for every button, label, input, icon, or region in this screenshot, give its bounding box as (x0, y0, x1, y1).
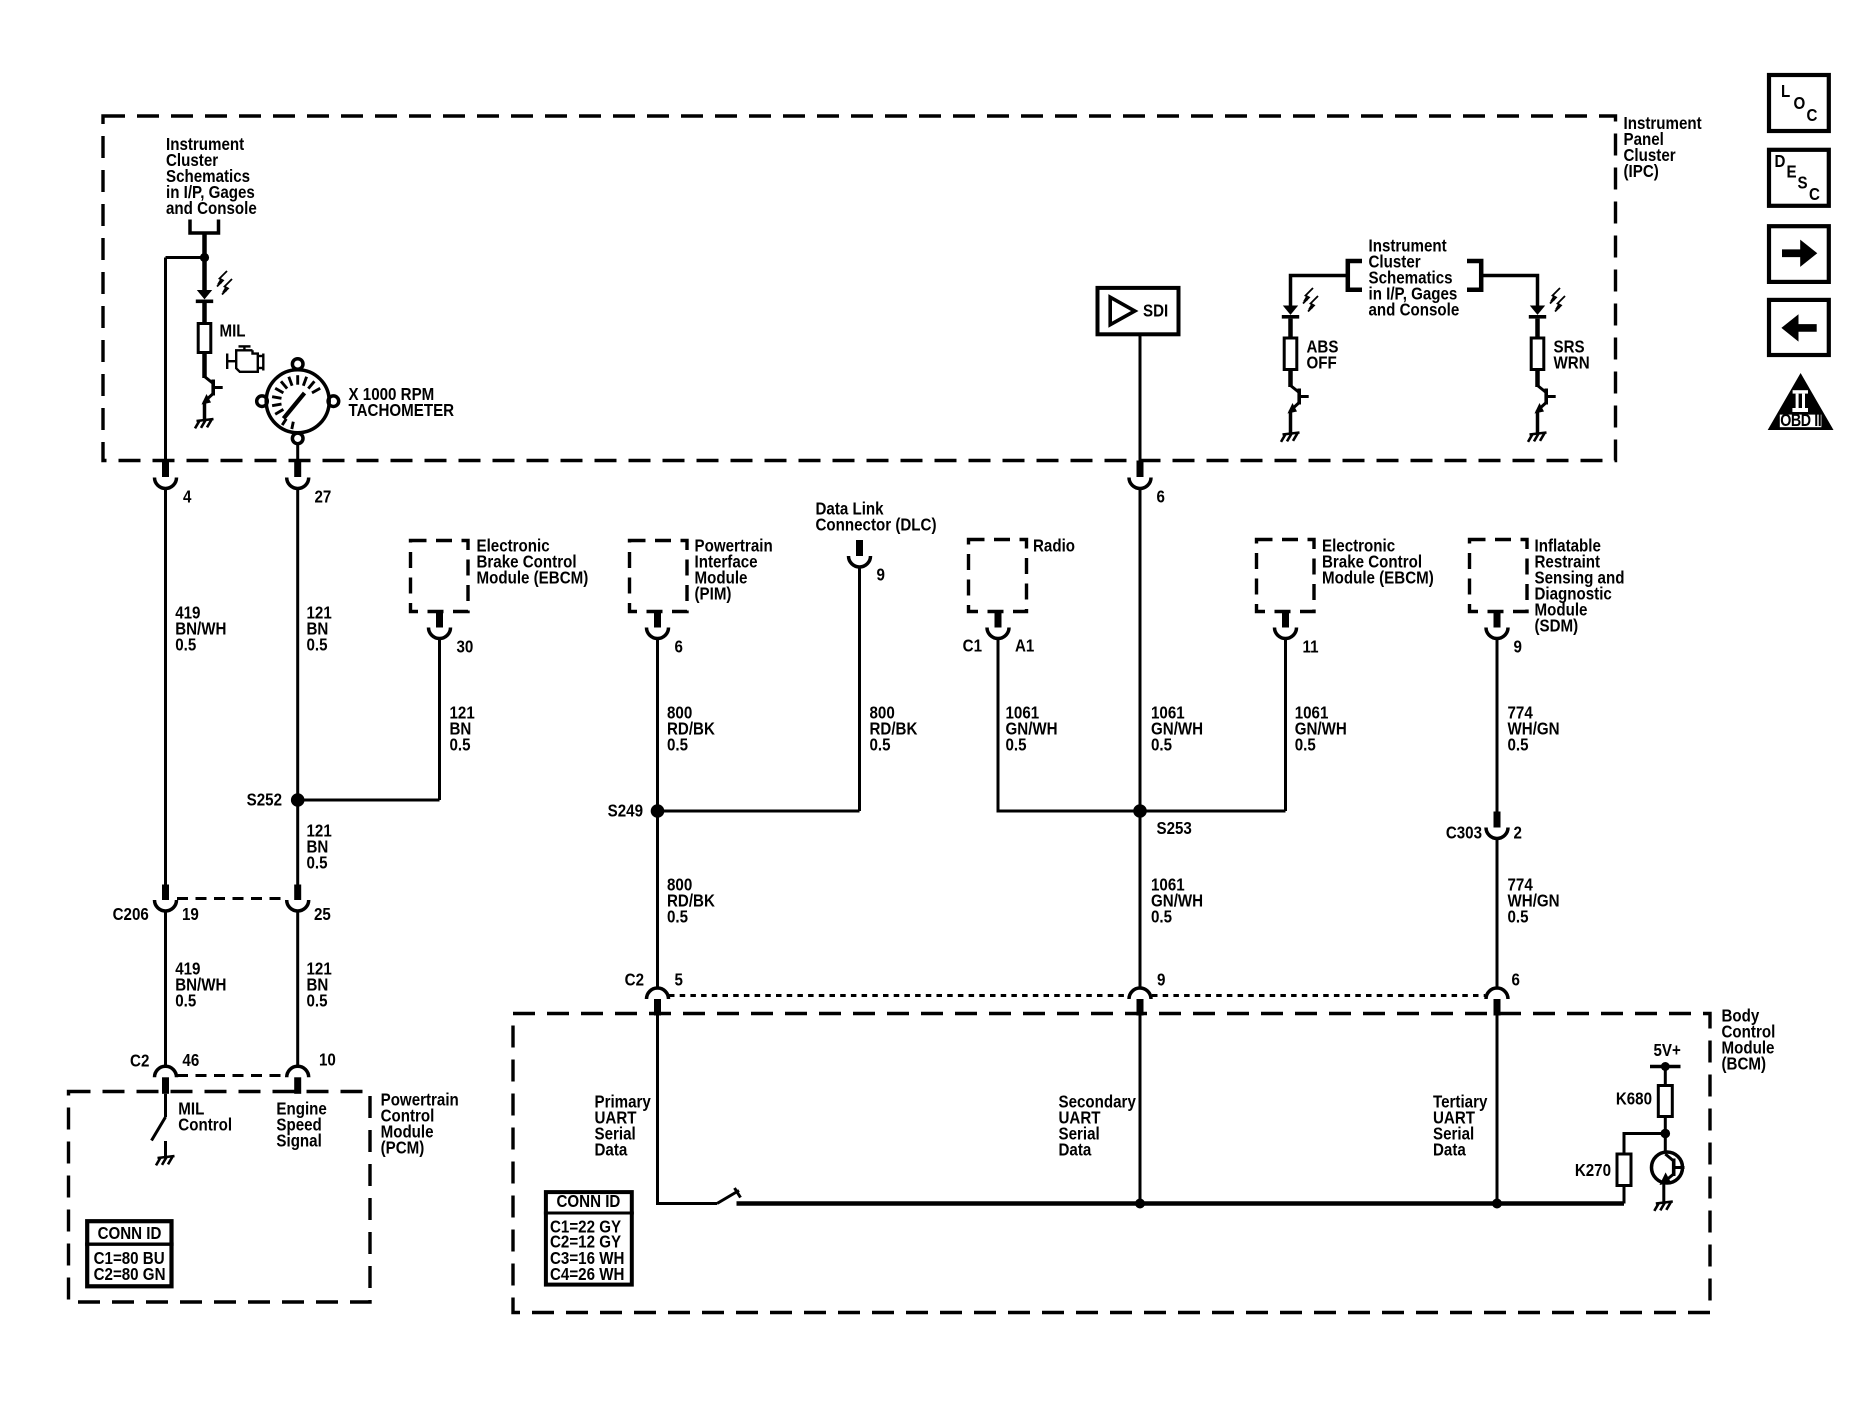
PCM name label (381, 1091, 459, 1158)
svg-text:CONN ID: CONN ID (556, 1192, 620, 1211)
wire label 774 WH/GN 0.5 (SDM drop) (1508, 704, 1560, 755)
svg-text:S: S (1798, 174, 1808, 193)
wire (202, 303, 207, 324)
svg-text:SDI: SDI (1143, 302, 1168, 321)
lamp element (resistor box) ABS (1284, 338, 1297, 370)
svg-text:Module (EBCM): Module (EBCM) (1322, 569, 1434, 588)
wire label 121 BN 0.5 (lower) (307, 960, 332, 1011)
wire label 1061 GN/WH 0.5 (Radio drop) (1006, 704, 1058, 755)
prev-arrow nav box (1769, 300, 1829, 355)
lamp element (resistor box) SRS (1531, 338, 1544, 370)
svg-text:D: D (1775, 152, 1786, 171)
svg-text:0.5: 0.5 (450, 736, 471, 755)
svg-text:6: 6 (675, 638, 683, 657)
svg-text:Data: Data (595, 1141, 629, 1160)
wire: branch left to pin 4 drop (166, 256, 207, 259)
svg-text:0.5: 0.5 (307, 636, 328, 655)
Radio box (969, 540, 1027, 612)
connector pin 9 (DLC) (849, 540, 885, 585)
C2 bridge dashed line (177, 1074, 287, 1077)
lamp element (resistor box) MIL (198, 324, 211, 353)
wire 1061 GN/WH (Radio to S253) (998, 639, 1140, 812)
svg-text:WRN: WRN (1554, 354, 1590, 373)
connector pin 4 (IPC) (155, 461, 192, 507)
svg-text:Connector (DLC): Connector (DLC) (816, 516, 937, 535)
wire 800 RD/BK (PIM to S249) (656, 639, 659, 812)
wire: drop to pin 4 (164, 258, 167, 462)
svg-text:10: 10 (319, 1051, 336, 1070)
wire 5V+ to K680 (1664, 1067, 1667, 1087)
Body Control Module (BCM) dashed box (513, 1014, 1710, 1313)
label Primary UART Serial Data (595, 1093, 651, 1160)
wire 121 BN (EBCM to S252) (438, 639, 441, 801)
splice S249 (651, 804, 665, 818)
wire label 1061 GN/WH 0.5 (center drop) (1151, 704, 1203, 755)
svg-text:OFF: OFF (1307, 354, 1337, 373)
Electronic Brake Control Module (EBCM) box 1 (411, 541, 469, 612)
svg-text:5V+: 5V+ (1654, 1041, 1681, 1060)
engine icon (check engine) (227, 346, 263, 371)
connector C1 pin A1 (Radio) (963, 612, 1035, 656)
LOC nav box (1769, 75, 1829, 131)
svg-text:5: 5 (675, 971, 683, 990)
connector pin 6 (BCM) (1486, 971, 1520, 1016)
BCM connector bridge dotted line (669, 994, 1128, 997)
wire 121 BN (pin 27 to C206) (296, 489, 299, 885)
svg-text:0.5: 0.5 (307, 992, 328, 1011)
wire: bracket to SRS lamp (1481, 276, 1537, 308)
wire 800 RD/BK (S249 to BCM C2/5) (656, 811, 659, 989)
wire 419 BN/WH (C206 to PCM C2/46) (164, 911, 167, 1067)
wire label 419 BN/WH 0.5 (lower) (175, 960, 226, 1011)
svg-text:(PIM): (PIM) (695, 585, 732, 604)
node: K680 / K270 / driver collector (1661, 1129, 1671, 1139)
svg-text:MIL: MIL (220, 322, 246, 341)
svg-text:TACHOMETER: TACHOMETER (349, 401, 455, 420)
connector pin 11 (EBCM 2) (1275, 612, 1319, 657)
wire 774 WH/GN (SDM to C303) (1496, 639, 1499, 813)
ABS OFF lamp branch (1281, 288, 1339, 442)
wire to ground (1536, 411, 1540, 434)
label Tertiary UART Serial Data (1433, 1093, 1487, 1160)
wire label 419 BN/WH 0.5 (upper) (175, 604, 226, 655)
ground (BCM driver) (1654, 1202, 1673, 1211)
svg-text:S252: S252 (247, 791, 282, 810)
svg-text:0.5: 0.5 (667, 908, 688, 927)
next-arrow nav box (1769, 226, 1829, 282)
wire: S253 to EBCM 2 riser (1140, 810, 1286, 813)
wire: tach to pin 27 (296, 444, 299, 461)
Powertrain Control Module (PCM) dashed box (69, 1092, 371, 1303)
ground (ABS) (1281, 433, 1300, 442)
svg-text:S249: S249 (608, 802, 643, 821)
wire label 121 BN 0.5 (EBCM drop) (450, 704, 475, 755)
wire: S249 tie bar (658, 810, 860, 813)
wire driver emitter to ground (1662, 1182, 1665, 1202)
C206 bridge dashed line (177, 897, 287, 900)
transistor (SRS lamp driver) (1538, 386, 1547, 393)
svg-text:11: 11 (1303, 638, 1319, 657)
svg-text:0.5: 0.5 (1006, 736, 1027, 755)
BCM name label (1722, 1007, 1776, 1074)
wire (1535, 370, 1540, 388)
wire 419 BN/WH (pin 4 to C206) (164, 489, 167, 885)
connector pin 27 (IPC) (287, 461, 332, 507)
svg-text:0.5: 0.5 (667, 736, 688, 755)
wire (1288, 319, 1293, 339)
wire: tertiary UART drop (1496, 1016, 1499, 1204)
connector pin 30 (EBCM 1) (429, 612, 474, 657)
wire K270 to bus (1623, 1186, 1626, 1204)
wire label 121 BN 0.5 (below S252) (307, 822, 332, 873)
wire label 800 RD/BK 0.5 (PIM drop) (667, 704, 715, 755)
wire: secondary UART drop (1139, 1016, 1142, 1204)
SDI box (1098, 288, 1179, 334)
svg-text:A1: A1 (1015, 637, 1034, 656)
svg-text:6: 6 (1157, 488, 1165, 507)
svg-text:L: L (1781, 82, 1790, 101)
svg-text:CONN ID: CONN ID (98, 1224, 162, 1243)
wire label 121 BN 0.5 (upper) (307, 604, 332, 655)
DESC nav box (1769, 150, 1829, 206)
Inflatable Restraint Sensing and Diagnostic Module (SDM) box (1470, 540, 1528, 612)
svg-text:0.5: 0.5 (1151, 908, 1172, 927)
svg-text:C2: C2 (130, 1051, 149, 1070)
LED element of MIL lamp (197, 290, 212, 299)
svg-text:C4=26 WH: C4=26 WH (550, 1265, 624, 1284)
svg-text:9: 9 (1514, 638, 1522, 657)
label Engine Speed Signal (276, 1100, 326, 1151)
5V+ supply (1650, 1041, 1681, 1071)
illumination arrows (SRS lamp) (1550, 288, 1565, 312)
ground (PCM MIL control) (156, 1156, 175, 1165)
wire 1061 GN/WH (IPC pin 6 to S253) (1139, 489, 1142, 812)
svg-text:0.5: 0.5 (870, 736, 891, 755)
connector C206 pin 19 (155, 885, 177, 912)
OBD II badge (1768, 373, 1834, 431)
resistor K680 (1658, 1086, 1672, 1117)
connector pin 9 (BCM) (1129, 971, 1165, 1016)
wire: S252 to EBCM pin 30 riser (298, 799, 440, 802)
svg-text:27: 27 (315, 488, 332, 507)
svg-text:S253: S253 (1157, 819, 1192, 838)
svg-text:C303: C303 (1446, 824, 1482, 843)
wire to ground (1289, 411, 1293, 434)
wire label 800 RD/BK 0.5 (DLC drop) (870, 704, 918, 755)
svg-text:C1: C1 (963, 637, 982, 656)
MIL control switch (152, 1094, 166, 1156)
svg-text:E: E (1787, 163, 1797, 182)
off-page bracket left (1348, 261, 1362, 290)
connector C303 pin 2 (1446, 812, 1522, 843)
svg-text:Signal: Signal (276, 1132, 321, 1151)
wire: bracket to ABS lamp (1291, 276, 1348, 308)
svg-text:C206: C206 (113, 905, 149, 924)
connector C2 pin 46 (PCM) (155, 1066, 177, 1094)
LED element of SRS lamp (1530, 306, 1545, 315)
splice S253 (1133, 804, 1147, 818)
connector pin 9 (SDM) (1486, 612, 1522, 657)
connector C2 pin 5 (BCM) (625, 971, 683, 1016)
svg-text:2: 2 (1514, 824, 1522, 843)
connector C206 pin 25 (287, 885, 309, 912)
wire 774 WH/GN (C303 to BCM pin 6) (1496, 839, 1499, 989)
svg-text:4: 4 (183, 488, 191, 507)
node: junction of MIL lamp branch and pin 4 wire (200, 253, 209, 262)
svg-text:0.5: 0.5 (175, 636, 196, 655)
SRS WRN lamp branch (1528, 288, 1590, 442)
wire label 1061 GN/WH 0.5 (lower) (1151, 876, 1203, 927)
tachometer gauge (257, 359, 339, 444)
label Data Link Connector (DLC) (816, 500, 937, 535)
label: Instrument Cluster Schematics (right) (1369, 237, 1460, 320)
connector pin 6 (PIM) (647, 612, 683, 657)
wire label 774 WH/GN 0.5 (lower) (1508, 876, 1560, 927)
svg-text:0.5: 0.5 (175, 992, 196, 1011)
svg-text:Radio: Radio (1033, 537, 1075, 556)
ground (SRS) (1528, 433, 1547, 442)
svg-text:0.5: 0.5 (1295, 736, 1316, 755)
svg-text:25: 25 (314, 905, 331, 924)
LED element of ABS lamp (1283, 306, 1298, 315)
wire (1535, 319, 1540, 339)
wire: SDI to pin 6 (1139, 334, 1142, 461)
svg-text:and Console: and Console (1369, 301, 1460, 320)
wire 800 RD/BK (DLC to S249) (858, 567, 861, 811)
svg-text:C2: C2 (625, 971, 644, 990)
wire: primary UART drop (658, 1016, 718, 1204)
junction: secondary to bus (1135, 1199, 1145, 1209)
svg-text:(SDM): (SDM) (1535, 617, 1579, 636)
wire 1061 GN/WH (EBCM 2 to S253) (1284, 639, 1287, 812)
svg-text:K270: K270 (1575, 1161, 1611, 1180)
UART bus wire (737, 1201, 1625, 1205)
wire: bracket stem down to node (202, 233, 207, 259)
label: Instrument Cluster Schematics (left) (166, 135, 257, 218)
Powertrain Interface Module (PIM) box (630, 541, 688, 612)
svg-text:Control: Control (178, 1116, 232, 1135)
svg-text:(IPC): (IPC) (1624, 162, 1659, 181)
label MIL Control (178, 1100, 232, 1135)
svg-text:Data: Data (1059, 1141, 1093, 1160)
label Secondary UART Serial Data (1059, 1093, 1136, 1160)
wire 121 BN (C206 to PCM C2/10) (296, 911, 299, 1067)
svg-text:O: O (1794, 94, 1806, 113)
wire: MIL lamp branch (thick) (202, 258, 207, 292)
resistor K270 (1617, 1154, 1631, 1186)
wire (202, 353, 207, 379)
switch blade on UART bus (717, 1188, 741, 1204)
svg-text:(PCM): (PCM) (381, 1139, 425, 1158)
svg-text:C: C (1807, 106, 1818, 125)
svg-text:(BCM): (BCM) (1722, 1055, 1767, 1074)
transistor (UART driver, BCM) (1652, 1152, 1685, 1185)
CONN ID table (BCM) (544, 1192, 634, 1285)
svg-text:C2=80 GN: C2=80 GN (94, 1265, 166, 1284)
wire node to K270 (1624, 1134, 1665, 1155)
connector C2 pin 10 (PCM) (287, 1066, 309, 1094)
svg-text:Module (EBCM): Module (EBCM) (477, 569, 589, 588)
svg-text:C: C (1809, 185, 1820, 204)
off-page bracket (left cluster feed) (190, 220, 219, 234)
wire K680 to node (1664, 1117, 1667, 1153)
svg-text:6: 6 (1512, 971, 1520, 990)
illumination arrows (MIL lamp) (217, 271, 232, 295)
CONN ID table (PCM) (85, 1221, 174, 1286)
svg-text:30: 30 (457, 638, 474, 657)
svg-text:Data: Data (1433, 1141, 1467, 1160)
wire (1288, 370, 1293, 388)
ground (MIL) (195, 419, 214, 428)
illumination arrows (ABS lamp) (1303, 288, 1318, 312)
wire label 1061 GN/WH 0.5 (EBCM 2 drop) (1295, 704, 1347, 755)
splice S252 (291, 793, 305, 807)
off-page bracket right (1467, 261, 1481, 290)
junction: tertiary to bus (1492, 1199, 1502, 1209)
wire 1061 GN/WH (S253 to BCM pin 9) (1139, 811, 1142, 989)
svg-text:and Console: and Console (166, 199, 257, 218)
svg-text:46: 46 (182, 1051, 199, 1070)
svg-text:0.5: 0.5 (1508, 908, 1529, 927)
Electronic Brake Control Module (EBCM) box 2 (1257, 540, 1315, 612)
svg-text:OBD II: OBD II (1780, 412, 1821, 431)
svg-text:9: 9 (1157, 971, 1165, 990)
transistor (ABS lamp driver) (1291, 386, 1300, 393)
svg-text:K680: K680 (1616, 1090, 1652, 1109)
svg-text:9: 9 (877, 566, 885, 585)
svg-text:0.5: 0.5 (1508, 736, 1529, 755)
svg-text:0.5: 0.5 (1151, 736, 1172, 755)
Instrument Panel Cluster (IPC) dashed box (103, 116, 1616, 461)
wire to ground (203, 402, 207, 420)
transistor (MIL lamp driver) (202, 377, 223, 405)
svg-text:19: 19 (182, 905, 199, 924)
svg-text:0.5: 0.5 (307, 854, 328, 873)
connector pin 6 (IPC) (1129, 461, 1165, 507)
wire label 800 RD/BK 0.5 (lower) (667, 876, 715, 927)
